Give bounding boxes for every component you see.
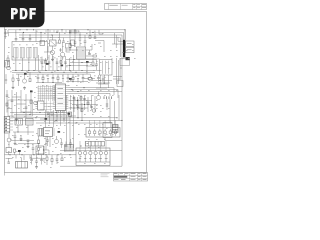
wire harness corners right bbox=[95, 40, 104, 42]
sheet border frame bbox=[5, 12, 147, 173]
sub IC U6 bbox=[38, 101, 45, 110]
gnd stub left bbox=[12, 86, 14, 87]
IC U3 main jungle IC bbox=[56, 84, 66, 111]
small resistors row bbox=[45, 61, 47, 64]
U4 label bbox=[45, 130, 50, 133]
gnd bottom bbox=[36, 166, 38, 167]
rail stub ticks bbox=[45, 30, 47, 33]
bus y112-115 bbox=[10, 112, 70, 114]
corner turns down right bbox=[113, 88, 115, 95]
small box top bbox=[66, 44, 72, 49]
transistor Q2 bbox=[60, 52, 64, 56]
IC bottom pins bbox=[56, 111, 58, 114]
right vertical group x116-122 bbox=[116, 58, 118, 84]
title block bbox=[114, 173, 148, 182]
wires under T3 bbox=[100, 75, 102, 88]
box below heatsink bbox=[120, 59, 130, 66]
mid bus wires bbox=[12, 70, 100, 72]
flyback transformer T2 bbox=[77, 47, 86, 59]
transistor Q4 bbox=[54, 139, 58, 143]
switch transistor Q1 bbox=[50, 50, 54, 54]
center extra h wires bbox=[66, 59, 96, 61]
wires at heatsink bbox=[118, 40, 123, 42]
diode D11 bbox=[106, 99, 108, 110]
h links right of U3 bbox=[69, 100, 93, 102]
resistor R3 bbox=[7, 58, 9, 61]
caps right of U3 bbox=[73, 97, 76, 99]
winding L4 bbox=[33, 48, 37, 59]
wires under modules bbox=[17, 125, 19, 132]
transistor Q17 bbox=[89, 77, 93, 81]
resistor R9 bbox=[51, 112, 53, 115]
heatsink bar Q19 bbox=[123, 40, 125, 58]
dense part X2 bbox=[113, 125, 119, 133]
regulator box U2a bbox=[126, 41, 134, 47]
bottom long wire bbox=[60, 165, 122, 167]
right vertical drop 2 bbox=[123, 32, 125, 39]
small box right group bbox=[117, 81, 123, 87]
left border stub bbox=[4, 173, 6, 176]
junctions right of U3 bbox=[71, 89, 72, 90]
resistor R10 bbox=[38, 140, 40, 143]
bridge rectifier D1 bbox=[50, 40, 57, 46]
vertical wire drops center bbox=[38, 55, 40, 71]
relay K1 bbox=[65, 145, 74, 152]
U3 internal pin rows bbox=[56, 85, 65, 87]
bottom extra parts bbox=[56, 155, 58, 159]
verticals x45-54 y110-127 bbox=[45, 110, 47, 128]
transformer T4 small bbox=[38, 129, 43, 137]
connector J2 edge connector bbox=[4, 117, 10, 134]
pin hatch x69-78 bbox=[68, 30, 70, 34]
B+ rail bbox=[19, 34, 122, 36]
watermark text bbox=[101, 172, 110, 175]
wires below U3 bbox=[56, 111, 58, 123]
filter cap C3 bbox=[29, 38, 32, 40]
array bottom bus bbox=[76, 161, 110, 163]
resistor R8 bbox=[30, 100, 32, 103]
caps bottom bbox=[30, 159, 33, 161]
resistor R6 bbox=[92, 62, 94, 65]
mid band link wires bbox=[36, 82, 62, 84]
winding L3 bbox=[27, 48, 31, 59]
cap C7 bbox=[88, 53, 91, 55]
module M1 bbox=[15, 119, 23, 126]
small box row y40 bbox=[40, 41, 45, 46]
mains rail L bbox=[11, 29, 126, 31]
regulator box U2b bbox=[126, 47, 134, 53]
resistor R4 bbox=[12, 78, 14, 81]
secondary rail bbox=[19, 37, 120, 39]
cap C11 bbox=[95, 63, 98, 65]
resistor R5 bbox=[29, 79, 31, 82]
right column parts x76-84 bbox=[77, 99, 79, 118]
pin wire grid to U3 bbox=[38, 86, 56, 88]
cap C12 bbox=[97, 77, 100, 79]
speaker box SP1 bbox=[16, 162, 28, 169]
resistor R2 bbox=[93, 55, 96, 57]
right vertical drop 4 bbox=[119, 38, 121, 57]
links top cluster bbox=[56, 42, 60, 44]
resistors right of U3 bbox=[80, 97, 82, 100]
wires bridge cluster bbox=[47, 30, 49, 40]
lower grid links bbox=[40, 103, 54, 105]
center extra verticals bbox=[78, 60, 80, 71]
left column y90-115 bbox=[6, 90, 8, 113]
h-links left bbox=[12, 96, 21, 98]
wires T3 area bbox=[86, 58, 100, 60]
mid band parts row bbox=[37, 74, 39, 77]
wires under U4 bbox=[45, 137, 47, 151]
transformer T3 bbox=[100, 60, 113, 76]
diode D10 bbox=[60, 48, 62, 52]
dark component bodies bbox=[46, 63, 49, 65]
cap C10 bbox=[17, 78, 20, 80]
line filter block T1 bbox=[12, 42, 48, 61]
revision table bbox=[105, 4, 147, 10]
PDF badge label bbox=[11, 8, 36, 19]
bottom link wires bbox=[30, 157, 45, 159]
right vertical drop 3 bbox=[121, 35, 123, 151]
winding L2 bbox=[20, 48, 24, 59]
transistor Q20 bbox=[7, 138, 11, 142]
crystal X1 bbox=[69, 112, 72, 117]
mid-left h wires y140-147 bbox=[12, 140, 34, 142]
electrolytic C20 bbox=[92, 109, 96, 113]
small caps on left wires bbox=[11, 99, 14, 101]
zener D6 bbox=[5, 74, 7, 80]
connector P1 mains plug bbox=[4, 32, 8, 34]
sub-board U5 bbox=[103, 123, 112, 138]
U3 left pins bbox=[53, 85, 56, 87]
electrolytic C9 bbox=[7, 66, 11, 70]
ground bus bbox=[5, 154, 77, 156]
vertical drops right of U3 bbox=[70, 95, 72, 110]
HV diode D5 bbox=[86, 49, 92, 51]
box M3 bbox=[36, 146, 44, 154]
transistor Q18 bbox=[97, 96, 101, 100]
h link left low bbox=[7, 108, 12, 110]
right vertical drop 1 bbox=[124, 30, 126, 40]
winding L1 bbox=[14, 48, 18, 59]
vertical caps column center-bottom bbox=[61, 139, 63, 143]
long verticals to bottom bbox=[66, 95, 68, 145]
startup resistor R1 bbox=[59, 40, 61, 43]
resistor R7 bbox=[88, 78, 91, 80]
cap C4 bbox=[62, 40, 65, 42]
IC interior text bbox=[58, 87, 64, 90]
winding bottom stubs bbox=[15, 58, 17, 71]
top band extra parts bbox=[89, 30, 91, 36]
right mid extra h wires bbox=[92, 80, 112, 82]
mains rail N bbox=[11, 31, 124, 33]
snubber cluster D2 D3 C5 bbox=[69, 30, 71, 44]
h rungs right group bbox=[113, 76, 122, 78]
bottom components row bbox=[15, 155, 17, 159]
resistor R11 bbox=[14, 149, 16, 152]
module M2 bbox=[26, 119, 34, 126]
title block text bbox=[114, 172, 118, 175]
filter cap C2 bbox=[22, 38, 25, 40]
U3 right pins bbox=[66, 85, 69, 87]
small caps row bbox=[41, 61, 44, 63]
diode D9 bbox=[102, 76, 104, 82]
output array Q11-Q16 bbox=[76, 148, 110, 166]
diode D4 bbox=[79, 32, 81, 38]
tuner cluster bbox=[6, 148, 12, 153]
IC U4 bbox=[44, 128, 53, 137]
electrolytic C13 bbox=[34, 101, 38, 105]
left cluster enclosure bbox=[8, 100, 33, 116]
dark part X3 bbox=[126, 57, 130, 60]
transistor Q3 bbox=[22, 79, 26, 83]
PDF badge bbox=[0, 0, 45, 27]
ground symbols lower-left bbox=[14, 142, 16, 143]
cap C16 bbox=[18, 150, 21, 152]
left border box J4 bbox=[5, 61, 10, 68]
right drops x110-121 y99-122 bbox=[109, 99, 111, 123]
caps row lower-left bbox=[14, 135, 17, 137]
filter cap C1 bbox=[15, 38, 18, 40]
left vertical wires bbox=[11, 90, 13, 118]
gnd left mid bbox=[16, 118, 18, 119]
cap C14 bbox=[47, 111, 50, 113]
cap C6 bbox=[84, 40, 87, 42]
connector J3 bbox=[86, 142, 105, 147]
pad row right bbox=[103, 96, 105, 99]
long bus to right bbox=[13, 117, 117, 119]
junction dots on rails bbox=[19, 29, 20, 30]
resistors bottom bbox=[46, 157, 48, 160]
wires right lower bbox=[112, 139, 122, 141]
cap C15 bbox=[46, 139, 49, 141]
bottom-left cluster y143-152 bbox=[32, 144, 34, 149]
driver array Q5-Q10 bbox=[86, 128, 120, 138]
label specks bbox=[13, 44, 15, 47]
wire drops into T1 bbox=[15, 30, 17, 36]
J2 inner pads bbox=[5, 118, 7, 119]
bus right of U3 bbox=[68, 87, 114, 89]
h wire y150 bbox=[60, 149, 122, 151]
